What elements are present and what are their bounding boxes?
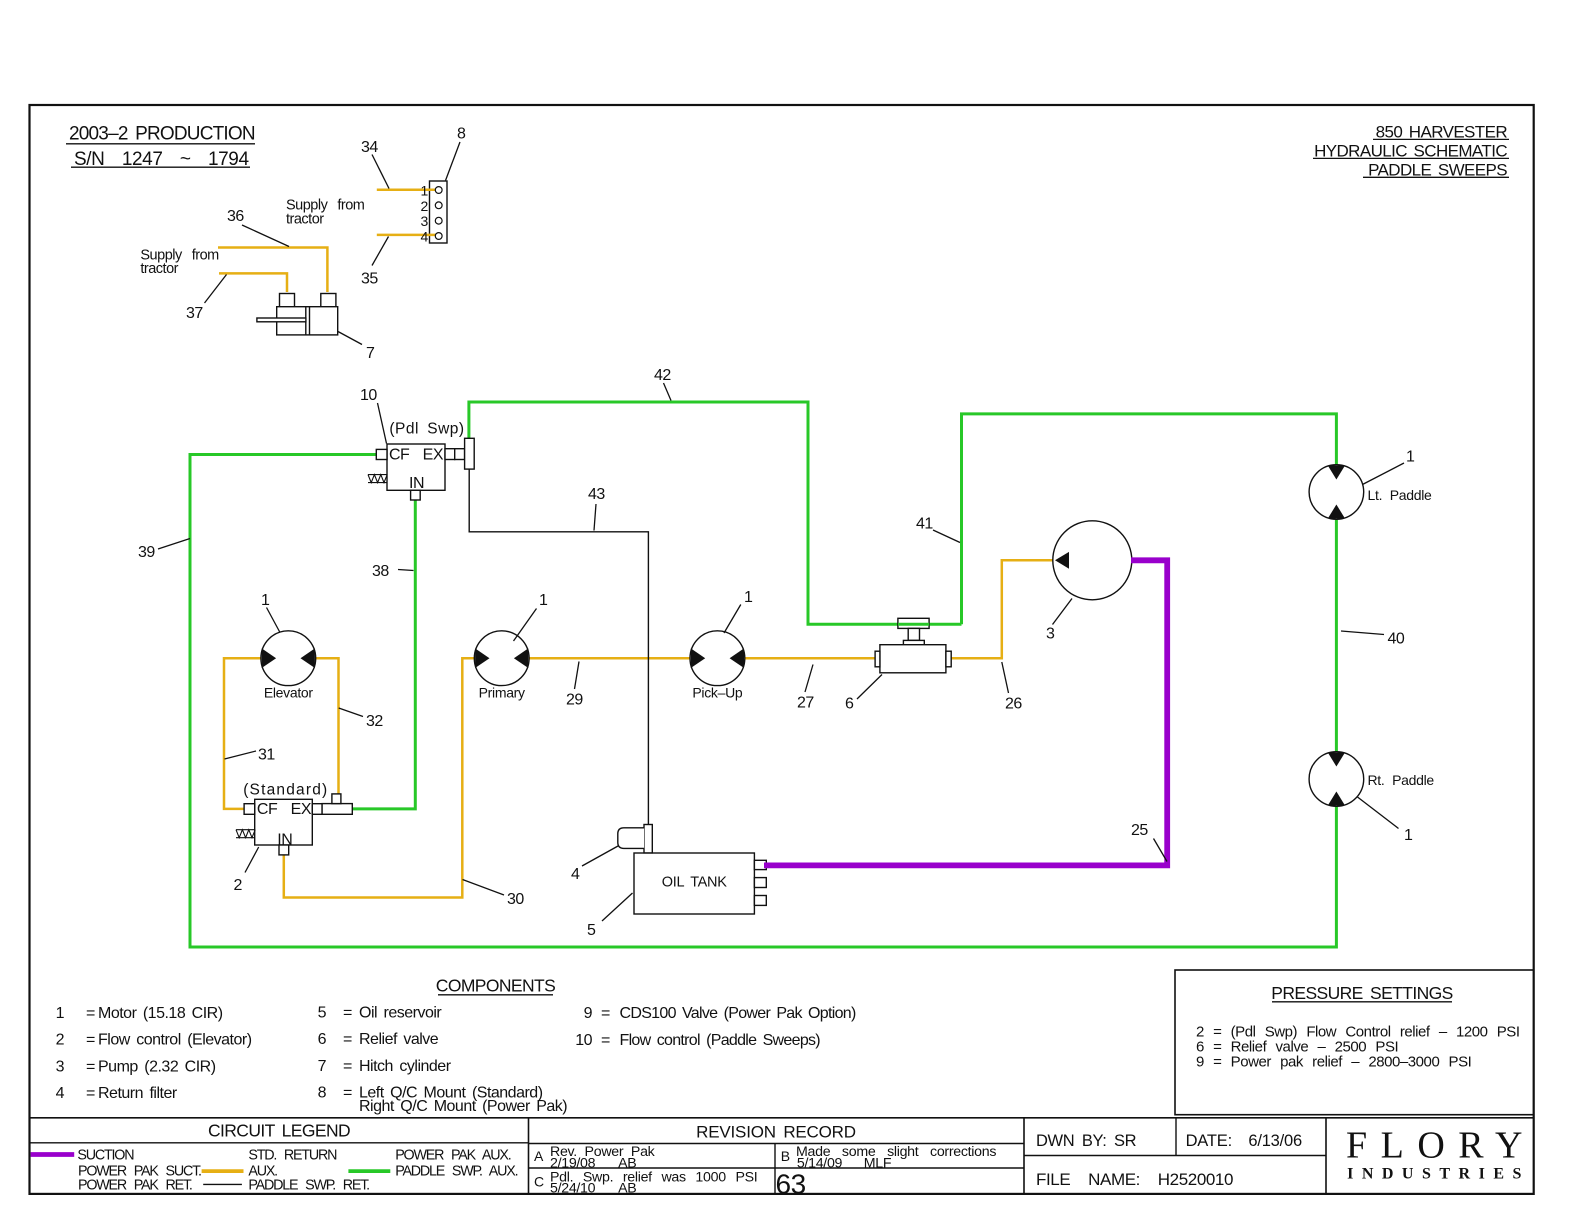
svg-text:4: 4 [56,1085,65,1102]
wire 26 (aux yellow to pump) [950,560,1055,658]
svg-text:OIL TANK: OIL TANK [662,875,727,891]
label 2 [234,847,259,894]
svg-text:FILE NAME: H2520010: FILE NAME: H2520010 [1036,1170,1233,1189]
label 6 [845,675,882,713]
svg-text:37: 37 [186,305,203,322]
flow control valve 2 (Standard) [236,782,352,855]
return filter 4 [618,825,653,853]
label 1 (rt paddle) [1358,797,1414,844]
svg-text:tractor: tractor [286,212,324,228]
label 4 [571,846,618,883]
relief valve 6 [875,618,951,673]
svg-text:32: 32 [366,713,383,730]
svg-text:tractor: tractor [140,261,178,277]
svg-text:Oil reservoir: Oil reservoir [359,1005,442,1022]
wire 31 (aux yellow, elevator CF loop) [224,658,262,809]
svg-text:Motor (15.18 CIR): Motor (15.18 CIR) [98,1005,223,1022]
svg-text:850 HARVESTER: 850 HARVESTER [1376,122,1508,141]
label 27 [797,665,814,712]
wire 32 (aux yellow, elevator EX) [315,658,339,795]
svg-text:HYDRAULIC SCHEMATIC: HYDRAULIC SCHEMATIC [1314,141,1507,160]
svg-text:Pick–Up: Pick–Up [692,685,743,701]
svg-text:6: 6 [318,1031,327,1048]
svg-text:EX: EX [423,446,444,463]
motor 1 Rt. Paddle [1309,752,1434,807]
svg-text:INDUSTRIES: INDUSTRIES [1347,1166,1530,1183]
components list [56,976,856,1116]
label 41 [916,516,960,543]
svg-text:2: 2 [421,198,429,214]
wire 41 (green riser to Lt. Paddle) [962,414,1337,624]
svg-text:Relief valve: Relief valve [359,1031,439,1048]
svg-text:STD. RETURN: STD. RETURN [248,1148,337,1164]
svg-text:A: A [534,1148,544,1164]
label 8 [446,126,467,181]
svg-text:=: = [343,1031,352,1048]
label 10 [360,387,387,444]
label 30 [463,880,525,909]
title: drawing name [1313,122,1509,179]
svg-text:=: = [86,1005,95,1022]
svg-text:2: 2 [234,877,243,894]
svg-text:7: 7 [318,1058,327,1075]
svg-text:=: = [343,1085,352,1102]
svg-text:=: = [86,1085,95,1102]
svg-text:1: 1 [1406,449,1415,466]
wire 42 (green) [469,402,962,624]
svg-text:27: 27 [797,695,814,712]
svg-text:31: 31 [258,747,275,764]
motor 1 Lt. Paddle [1309,465,1432,520]
svg-text:1: 1 [1404,827,1413,844]
svg-text:1: 1 [261,592,270,609]
svg-text:DWN BY: SR: DWN BY: SR [1036,1132,1137,1150]
svg-text:2: 2 [56,1032,65,1049]
svg-text:REVISION RECORD: REVISION RECORD [696,1122,856,1141]
svg-text:34: 34 [361,139,378,156]
svg-text:CF: CF [257,801,278,818]
svg-text:4: 4 [571,866,580,883]
wire 29 (aux yellow) [528,657,691,660]
svg-text:5/24/10 AB: 5/24/10 AB [550,1181,636,1197]
svg-text:Rt. Paddle: Rt. Paddle [1368,772,1435,788]
svg-text:1: 1 [744,589,753,606]
svg-text:8: 8 [318,1085,327,1102]
circuit legend [31,1121,518,1194]
svg-text:10: 10 [360,387,377,404]
svg-text:6: 6 [845,696,854,713]
suction wire 25 (purple) [764,560,1167,865]
label 35 [361,237,389,288]
label 25 [1131,822,1167,862]
label 1 (elevator) [261,592,280,633]
svg-text:43: 43 [588,486,605,503]
wire 43 (paddle swp return, thin) [469,469,648,824]
label 34 [361,139,389,189]
svg-text:IN: IN [409,475,424,492]
label 40 [1341,631,1405,648]
title: production note [66,124,255,170]
svg-text:FLORY: FLORY [1346,1125,1536,1167]
svg-text:36: 36 [227,208,244,225]
label 32 [339,708,384,730]
label 37 [186,275,227,323]
pressure settings box [1175,970,1534,1115]
label 31 [225,747,276,764]
connector J8 pins 1-4 [421,183,443,245]
svg-text:Return filter: Return filter [98,1085,178,1102]
pump 3 [1053,521,1132,600]
svg-text:3: 3 [56,1058,65,1075]
label 1 (lt paddle) [1363,449,1416,485]
revision record [534,1122,996,1199]
svg-text:(Pdl Swp): (Pdl Swp) [389,421,464,438]
svg-text:38: 38 [372,563,389,580]
label 3 [1046,599,1072,643]
label 38 [372,563,414,580]
svg-text:POWER PAK RET.: POWER PAK RET. [78,1178,192,1194]
svg-text:Flow control (Paddle Sweeps: Flow control (Paddle Sweeps) [620,1032,821,1049]
wire 36 [218,248,327,293]
svg-text:Flow control (Elevator): Flow control (Elevator) [98,1032,252,1049]
svg-text:DATE: 6/13/06: DATE: 6/13/06 [1186,1132,1302,1150]
svg-text:IN: IN [277,832,292,849]
connector block J8 [430,181,448,243]
label 36 [227,208,289,247]
svg-text:=: = [343,1058,352,1075]
wire 34 [377,189,436,192]
legend / title block frame [30,1118,1534,1194]
svg-text:EX: EX [291,801,312,818]
svg-text:5/14/09 MLF: 5/14/09 MLF [797,1155,892,1171]
svg-text:POWER PAK AUX.: POWER PAK AUX. [395,1148,511,1164]
motor 1 Elevator [261,631,316,701]
label 42 [654,367,671,401]
svg-text:=: = [343,1005,352,1022]
wire 40 (green, between paddle motors) [1335,519,1338,751]
svg-text:25: 25 [1131,822,1148,839]
label 1 (primary) [514,592,549,641]
svg-text:2003–2 PRODUCTION: 2003–2 PRODUCTION [69,124,255,145]
svg-text:B: B [781,1148,790,1164]
label 1 (pick-up) [724,589,753,633]
svg-text:PADDLE SWP. RET.: PADDLE SWP. RET. [248,1178,369,1194]
motor 1 Pick-Up [690,631,745,701]
svg-text:=: = [86,1058,95,1075]
svg-text:8: 8 [457,126,466,143]
svg-text:42: 42 [654,367,671,384]
svg-text:41: 41 [916,516,933,533]
svg-text:=: = [86,1032,95,1049]
wire 38 (green) [353,499,416,809]
svg-text:39: 39 [138,544,155,561]
wire 37 [219,273,287,292]
svg-text:9: 9 [584,1005,593,1022]
svg-text:PRESSURE SETTINGS: PRESSURE SETTINGS [1271,983,1452,1003]
svg-text:Primary: Primary [479,685,525,701]
svg-text:35: 35 [361,271,378,288]
svg-text:C: C [534,1174,544,1190]
svg-text:=: = [601,1005,610,1022]
svg-text:4: 4 [421,229,429,245]
oil tank 5 [634,853,766,914]
svg-text:3: 3 [1046,626,1055,643]
svg-text:Elevator: Elevator [264,685,314,701]
svg-text:Hitch cylinder: Hitch cylinder [359,1058,452,1075]
svg-text:(Standard): (Standard) [243,782,328,799]
svg-text:29: 29 [566,692,583,709]
svg-text:1: 1 [539,592,548,609]
wire 30 (aux yellow) [284,658,476,897]
flow control valve 10 (Pdl Swp) [368,421,474,501]
label 43 [588,486,605,531]
label 39 [138,539,190,562]
svg-text:=: = [601,1032,610,1049]
note: supply from tractor (left) [140,248,219,278]
label 5 [587,893,633,939]
svg-text:PADDLE SWEEPS: PADDLE SWEEPS [1368,160,1507,179]
svg-text:CF: CF [389,446,410,463]
wire 39 (paddle swp aux, green) [190,455,1336,948]
svg-text:30: 30 [507,891,524,908]
green through relief tee [898,623,929,626]
title block [1036,1125,1536,1190]
svg-text:Lt. Paddle: Lt. Paddle [1368,487,1433,503]
motor 1 Primary [474,631,529,701]
svg-text:5: 5 [587,922,596,939]
svg-text:COMPONENTS: COMPONENTS [436,976,555,996]
svg-text:PADDLE SWP. AUX.: PADDLE SWP. AUX. [395,1164,517,1180]
svg-text:SUCTION: SUCTION [77,1148,134,1164]
wire 27 (aux yellow) [744,657,877,660]
svg-text:1: 1 [56,1005,65,1022]
label 7 [338,332,375,363]
svg-text:9 = Power pak relief – 2: 9 = Power pak relief – 2800–3000 PSI [1196,1053,1471,1070]
wire 35 [377,234,436,237]
hitch cylinder 7 [257,294,338,335]
label 29 [566,662,583,709]
svg-text:1: 1 [421,183,429,199]
svg-text:Pump (2.32 CIR): Pump (2.32 CIR) [98,1058,216,1075]
svg-text:7: 7 [366,345,375,362]
svg-text:10: 10 [575,1032,592,1049]
label 26 [1002,662,1023,713]
svg-text:CDS100 Valve (Power Pak Op: CDS100 Valve (Power Pak Option) [620,1005,856,1022]
svg-text:5: 5 [318,1005,327,1022]
svg-text:CIRCUIT LEGEND: CIRCUIT LEGEND [208,1121,350,1141]
svg-text:26: 26 [1005,696,1022,713]
note: supply from tractor (right) [286,198,365,228]
svg-text:63: 63 [776,1168,806,1199]
svg-text:3: 3 [421,213,429,229]
svg-text:40: 40 [1388,631,1405,648]
svg-text:Right Q/C Mount (Power Pak: Right Q/C Mount (Power Pak) [359,1098,567,1115]
